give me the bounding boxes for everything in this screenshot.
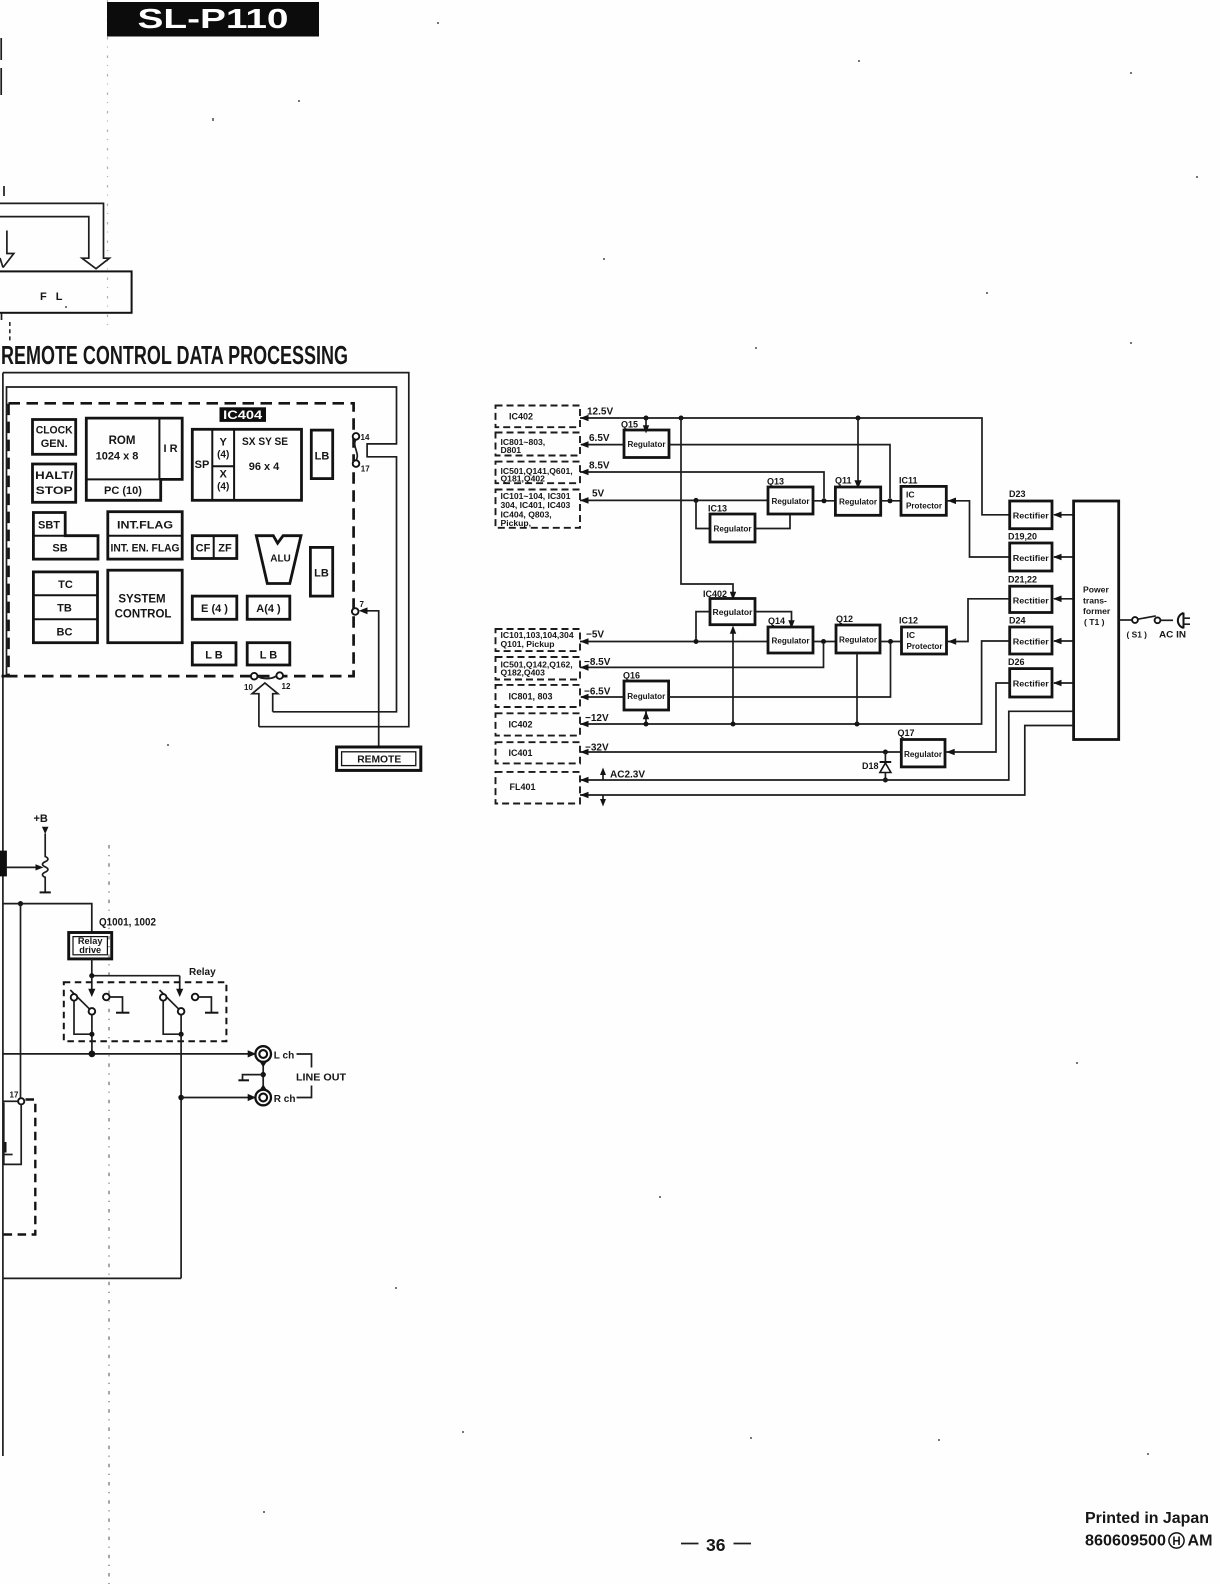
svg-text:+B: +B — [34, 813, 48, 825]
REMOTE box — [337, 747, 421, 770]
svg-text:D18: D18 — [862, 761, 879, 771]
svg-text:Q17: Q17 — [898, 728, 915, 738]
svg-text:FL401: FL401 — [510, 782, 536, 792]
svg-text:X: X — [220, 469, 228, 481]
svg-text:17: 17 — [10, 1091, 19, 1100]
svg-text:Regulator: Regulator — [904, 749, 943, 759]
pin 12 — [276, 672, 283, 679]
svg-text:Rectifier: Rectifier — [1013, 511, 1050, 521]
svg-text:IC402: IC402 — [509, 412, 533, 422]
wire bus into FL hollow arrow — [0, 203, 109, 268]
TC/TB/BC timer block — [33, 572, 97, 643]
wire -5V into IC402 regulator — [696, 612, 710, 642]
wire bottom return bus — [3, 1277, 181, 1279]
svg-text:860609500: 860609500 — [1085, 1533, 1166, 1550]
wire IC402 reg bottom to -12V rail — [732, 631, 734, 724]
svg-text:D24: D24 — [1009, 616, 1026, 626]
svg-text:D801: D801 — [501, 445, 522, 455]
SBT / SB block — [33, 513, 98, 560]
svg-text:−12V: −12V — [585, 713, 609, 724]
wire L ch line — [3, 1053, 249, 1055]
svg-text:TC: TC — [58, 579, 73, 591]
svg-text:Regulator: Regulator — [627, 691, 666, 701]
junction — [179, 1032, 184, 1037]
svg-text:STOP: STOP — [36, 485, 73, 497]
svg-text:TB: TB — [57, 603, 72, 615]
junction — [679, 416, 684, 421]
cut-off IC tab at page edge — [0, 851, 7, 877]
wire transformer to D19,20 — [1054, 556, 1074, 558]
svg-text:(4): (4) — [217, 450, 229, 461]
relay switch 1 — [70, 990, 90, 1009]
INT.FLAG / INT.EN.FLAG block — [108, 512, 182, 559]
wire +B node to relay drive — [3, 904, 92, 933]
junction — [644, 722, 649, 727]
svg-text:IC12: IC12 — [899, 616, 918, 626]
wire -5V line — [580, 641, 768, 643]
load box IC402 (+12.5V) — [496, 406, 581, 428]
wire D26 to Q17 — [945, 683, 1010, 752]
pin 7 — [352, 608, 359, 615]
load box IC501,Q142,Q162,Q182,Q403 — [496, 657, 581, 680]
svg-text:L B: L B — [205, 650, 223, 662]
dashed FL driver box — [3, 1100, 36, 1235]
clock gen block — [33, 420, 76, 455]
junction — [731, 722, 736, 727]
SP / Y / X / SX SY SE block — [192, 429, 301, 500]
svg-text:Regulator: Regulator — [772, 636, 811, 646]
pin 14 — [353, 433, 360, 440]
svg-text:36: 36 — [706, 1535, 726, 1555]
svg-text:Rectifier: Rectifier — [1013, 637, 1050, 647]
svg-text:SBT: SBT — [38, 520, 60, 532]
svg-text:14: 14 — [361, 433, 370, 442]
line out bracket — [297, 1054, 312, 1098]
FL display box — [0, 271, 132, 312]
relay dashed box — [64, 982, 227, 1041]
svg-text:12.5V: 12.5V — [587, 407, 613, 418]
svg-text:Q16: Q16 — [623, 671, 640, 681]
wire jack pins + center ground — [262, 1062, 264, 1090]
svg-text:INT. EN. FLAG: INT. EN. FLAG — [111, 543, 180, 555]
ROM / IR / PC block — [86, 418, 182, 500]
wavy wire pin10-pin12 — [258, 676, 277, 679]
system control block — [108, 570, 182, 643]
jack R ch — [255, 1090, 271, 1106]
load box IC101-104 etc (+5V) — [496, 490, 581, 528]
svg-text:L ch: L ch — [274, 1051, 294, 1062]
svg-text:AC IN: AC IN — [1159, 630, 1186, 640]
LB latch block mid right — [310, 547, 332, 596]
svg-text:IC: IC — [906, 490, 915, 500]
pin 10 — [251, 673, 258, 680]
svg-text:Regulator: Regulator — [628, 439, 667, 449]
svg-text:SL-P110: SL-P110 — [138, 3, 289, 34]
junction — [822, 498, 827, 503]
CF / ZF flags block — [192, 536, 237, 559]
svg-text:Regulator: Regulator — [772, 496, 811, 506]
wire relay drive to coils — [92, 959, 180, 976]
svg-text:IC402: IC402 — [509, 720, 533, 730]
SECTION: power — [496, 406, 581, 804]
svg-text:E (4 ): E (4 ) — [201, 603, 228, 615]
halt/stop block — [33, 464, 76, 502]
wire R ch line — [181, 1097, 249, 1099]
wire AC2.3V line 1 (FL401 top) — [580, 711, 1074, 780]
svg-text:former: former — [1083, 606, 1111, 616]
wire switch 2 down to R bus — [180, 1034, 182, 1278]
wire Q11 to IC11 — [881, 500, 901, 502]
svg-text:Printed in Japan: Printed in Japan — [1085, 1510, 1209, 1527]
svg-text:5V: 5V — [592, 489, 605, 500]
fold crease dotted line (top) — [107, 0, 109, 332]
svg-text:F L: F L — [40, 291, 66, 303]
wire Q13 to Q11 — [813, 500, 835, 502]
fold crease dotted line (bottom) — [108, 845, 110, 1584]
svg-text:12: 12 — [282, 682, 291, 691]
junction — [18, 901, 23, 906]
junction — [89, 1032, 94, 1037]
LB block bottom left — [192, 643, 236, 665]
svg-text:Protector: Protector — [907, 641, 944, 651]
svg-text:1024 x 8: 1024 x 8 — [96, 451, 139, 463]
svg-text:Q11: Q11 — [835, 476, 852, 486]
svg-text:Regulator: Regulator — [839, 497, 878, 507]
AC plug — [1178, 613, 1184, 629]
IC404 label — [220, 407, 267, 422]
wire Q16 out to Q12/IC12 node — [669, 644, 891, 697]
junction — [856, 416, 861, 421]
wavy wire pin14-pin17 — [355, 440, 358, 461]
svg-text:Protector: Protector — [906, 501, 943, 511]
svg-text:IC801, 803: IC801, 803 — [509, 691, 553, 701]
hollow arrow up into pins 10/12 — [252, 683, 278, 727]
svg-text:6.5V: 6.5V — [589, 433, 610, 444]
svg-text:(4): (4) — [217, 482, 229, 493]
svg-text:CLOCK: CLOCK — [36, 425, 73, 437]
load box IC801,803 (-6.5V) — [496, 685, 581, 707]
svg-text:SB: SB — [52, 543, 67, 555]
IC404 dashed boundary box — [9, 403, 354, 676]
svg-text:( T1 ): ( T1 ) — [1084, 617, 1105, 627]
wire transformer to D21,22 — [1054, 598, 1074, 600]
svg-text:D21,22: D21,22 — [1008, 575, 1037, 585]
wire rail drop into Q15 top — [645, 418, 647, 426]
svg-text:Regulator: Regulator — [839, 635, 878, 645]
+B arrow down — [42, 827, 49, 834]
svg-text:PC (10): PC (10) — [104, 485, 142, 497]
wire node to FL pin 17 — [20, 904, 22, 1099]
svg-text:LB: LB — [315, 451, 330, 463]
svg-text:ROM: ROM — [109, 435, 136, 447]
LB latch block top right — [311, 430, 332, 479]
wiper wire from tab — [7, 866, 36, 868]
wire AC2.3V line 2 (FL401 bottom) — [580, 726, 1074, 796]
load box IC501,Q141,Q601,Q181,Q402 — [496, 462, 581, 484]
svg-text:Pickup,: Pickup, — [501, 518, 532, 528]
partial hollow arrow at left edge — [3, 231, 14, 268]
svg-text:CF: CF — [196, 543, 211, 555]
svg-text:REMOTE CONTROL DATA PROCESSING: REMOTE CONTROL DATA PROCESSING — [1, 340, 348, 370]
wire transformer to D26 — [1054, 682, 1074, 684]
svg-text:10: 10 — [244, 683, 253, 692]
ALU block — [256, 536, 301, 584]
junction — [644, 416, 649, 421]
wire rail drop to IC402 regulator top — [681, 418, 733, 592]
junction — [883, 778, 888, 783]
wire IC13 out to Q13 bottom — [755, 514, 790, 529]
svg-text:drive: drive — [79, 945, 101, 955]
LB block bottom right — [247, 643, 290, 665]
junction — [694, 639, 699, 644]
wire -6.5V from Q16 — [581, 696, 624, 698]
svg-text:A(4 ): A(4 ) — [256, 603, 281, 615]
svg-text:LB: LB — [314, 568, 329, 580]
svg-text:Regulator: Regulator — [713, 607, 754, 617]
svg-text:Q12: Q12 — [836, 614, 853, 624]
svg-text:D19,20: D19,20 — [1008, 532, 1037, 542]
svg-text:Q13: Q13 — [767, 477, 784, 487]
svg-text:17: 17 — [361, 465, 370, 474]
svg-text:Power: Power — [1083, 585, 1109, 595]
junction — [821, 639, 826, 644]
svg-text:Q182,Q403: Q182,Q403 — [501, 667, 546, 677]
svg-text:IC11: IC11 — [899, 476, 918, 486]
relay contact stub 2 — [192, 994, 199, 1001]
svg-text:trans-: trans- — [1083, 596, 1107, 606]
svg-text:D23: D23 — [1009, 489, 1026, 499]
wire 6.5V from Q15 — [581, 444, 624, 446]
svg-text:SP: SP — [195, 459, 210, 471]
svg-text:Q15: Q15 — [621, 420, 638, 430]
svg-text:Q1001, 1002: Q1001, 1002 — [99, 917, 156, 929]
load box IC401 (-32V) — [496, 742, 581, 763]
relay drive block — [69, 933, 112, 959]
wire transformer to D24 — [1054, 640, 1074, 642]
wire Q14 to Q12 — [813, 641, 836, 643]
svg-text:Relay: Relay — [189, 967, 216, 978]
left edge vertical wire — [2, 373, 4, 1456]
svg-text:INT.FLAG: INT.FLAG — [117, 520, 173, 532]
wire rail drop into Q11 top — [857, 418, 859, 481]
svg-text:Rectifier: Rectifier — [1013, 553, 1050, 563]
model title block SL-P110 — [107, 2, 319, 37]
svg-text:IC13: IC13 — [708, 504, 727, 514]
wire -8.5V tap — [580, 644, 824, 667]
wire 12.5V rail to D23 — [580, 418, 1010, 515]
svg-text:IC404: IC404 — [223, 410, 263, 422]
potentiometer VR — [42, 834, 48, 892]
wire Q12 bottom to -12V rail — [856, 653, 858, 724]
svg-text:Y: Y — [220, 437, 228, 449]
svg-text:LINE OUT: LINE OUT — [296, 1072, 347, 1084]
pin 17 — [353, 460, 360, 467]
relay switch 2 — [160, 990, 180, 1009]
wire pin17 loop — [4, 1103, 21, 1165]
svg-text:R ch: R ch — [274, 1094, 296, 1105]
svg-text:Q181,Q402: Q181,Q402 — [501, 473, 546, 483]
svg-text:( S1 ): ( S1 ) — [1127, 630, 1148, 640]
load box IC101,103,104,304,Q101,Pickup (-5V) — [496, 629, 581, 651]
wire Q12 to IC12 — [880, 641, 902, 643]
wire transformer to D23 — [1054, 514, 1074, 516]
svg-text:SYSTEM: SYSTEM — [118, 594, 165, 606]
partial contact stub at page edge — [5, 1142, 7, 1153]
svg-text:BC: BC — [57, 627, 73, 639]
E(4) register block — [192, 596, 237, 619]
wire Q15 out to Q11/IC11 node — [669, 445, 890, 498]
relay contact stub 1 — [103, 994, 110, 1001]
svg-text:Q14: Q14 — [768, 616, 785, 626]
svg-text:I R: I R — [163, 443, 177, 455]
A(4) register block — [247, 596, 290, 619]
svg-text:8.5V: 8.5V — [589, 461, 610, 472]
AC2.3V measurement arrows — [602, 771, 604, 780]
wire -32V line to Q17 — [580, 751, 901, 753]
junction — [694, 498, 699, 503]
junction — [89, 973, 94, 978]
junction — [261, 1072, 266, 1077]
svg-text:7: 7 — [360, 600, 365, 609]
svg-text:Rectitier: Rectitier — [1013, 595, 1050, 605]
chassis ground stub — [243, 1075, 264, 1081]
svg-text:HALT/: HALT/ — [35, 470, 73, 482]
junction — [888, 639, 893, 644]
svg-text:D26: D26 — [1008, 657, 1025, 667]
svg-text:AC2.3V: AC2.3V — [610, 770, 645, 781]
svg-text:IC401: IC401 — [509, 748, 533, 758]
svg-text:96 x 4: 96 x 4 — [249, 461, 280, 473]
load box FL401 — [496, 772, 581, 804]
svg-text:GEN.: GEN. — [41, 438, 68, 450]
wire 5V line — [580, 499, 768, 501]
wire IC402 reg out to Q14 top — [755, 612, 792, 621]
svg-text:CONTROL: CONTROL — [115, 609, 172, 621]
svg-text:−5V: −5V — [586, 630, 604, 641]
inner bus loop wire — [7, 387, 397, 712]
page-edge marks top left — [1, 38, 4, 196]
page number 36 — [681, 1543, 699, 1545]
svg-text:ZF: ZF — [218, 543, 232, 555]
wire 8.5V tap — [580, 472, 824, 498]
junction — [883, 750, 888, 755]
wire D19,20 to IC11 — [946, 501, 1009, 557]
arrow into pin 7 from remote wire — [366, 611, 379, 747]
svg-text:ALU: ALU — [270, 554, 291, 565]
FL box left edge stub below — [1, 313, 3, 320]
svg-text:Q101, Pickup: Q101, Pickup — [501, 639, 555, 649]
load box IC402 (-12V) — [496, 713, 581, 735]
power transformer T1 — [1074, 501, 1119, 740]
wire Q16 bottom to -12V rail — [645, 710, 647, 724]
wire 5V branch to IC13 — [696, 500, 710, 528]
jack L ch — [255, 1046, 271, 1062]
svg-text:L B: L B — [260, 650, 278, 662]
svg-text:H: H — [1172, 1536, 1180, 1548]
junction — [89, 1051, 96, 1058]
wire D21,22 to IC12 — [947, 599, 1010, 642]
switch S1 — [1119, 619, 1133, 621]
load box IC801-803,D801 — [496, 433, 581, 456]
svg-text:Regulator: Regulator — [714, 524, 753, 534]
junction — [888, 498, 893, 503]
svg-text:SX SY SE: SX SY SE — [242, 436, 288, 448]
junction — [855, 722, 860, 727]
svg-text:Rectifier: Rectifier — [1013, 679, 1050, 689]
svg-text:AM: AM — [1188, 1533, 1213, 1550]
junction — [178, 1095, 184, 1101]
svg-text:REMOTE: REMOTE — [357, 754, 401, 766]
wire -12V rail to D24 — [580, 641, 1010, 724]
outer bus loop wire — [3, 373, 409, 727]
svg-text:IC: IC — [907, 630, 916, 640]
